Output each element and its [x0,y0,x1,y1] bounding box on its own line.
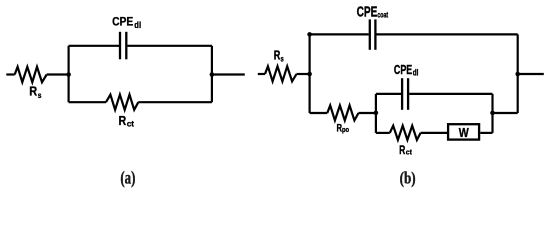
svg-text:ct: ct [127,118,135,128]
svg-text:coat: coat [377,12,388,20]
wire: inner right vertical (b) [491,94,493,133]
wire: left vertical (a) [67,46,69,102]
svg-text:R: R [274,49,281,63]
wire: output lead (b) [518,73,544,75]
node: left junction (a) [66,72,71,77]
svg-text:ct: ct [406,148,413,156]
label CPEdl (b) [394,63,419,77]
resistor Rct (a) zigzag [106,95,138,110]
wire: inner top branch left of CPEdl [376,93,401,95]
node: inner right junction (b) [490,111,495,116]
svg-text:CPE: CPE [112,16,134,29]
wire: bottom branch left (a) [69,101,106,103]
wire: right vertical (a) [211,46,213,102]
svg-text:dl: dl [134,19,141,30]
wire: W box to inner right vertical [480,132,492,134]
resistor Rs (a) zigzag [15,67,47,82]
resistor Rct (b) zigzag [390,126,421,140]
node: inner left junction after Rpo [374,111,379,116]
wire: inner left vertical (b) [375,94,377,133]
svg-text:s: s [38,90,42,100]
node: right junction (a) [210,72,215,77]
wire: right vertical (b) [517,34,519,113]
capacitor CPEcoat plates [370,19,376,49]
capacitor CPEdl (b) plates [402,78,408,110]
svg-text:s: s [281,56,284,64]
label CPEcoat [357,4,389,20]
wire: input lead (a) [6,73,14,75]
label Rs (a) [29,83,41,100]
svg-text:R: R [399,143,406,157]
wire: inner node to right vertical (b) [493,112,518,114]
node: top-left junction (b) [307,32,312,37]
label Rct (a) [119,113,135,129]
wire: left vertical (b) [309,34,311,113]
svg-text:dl: dl [413,67,419,77]
wire: top branch left (a) [69,45,119,47]
wire: Rct to W box [421,132,447,134]
svg-text:R: R [29,83,37,98]
wire: inner bottom branch left (b) [376,132,390,134]
wire: output lead (a) [212,73,245,75]
svg-text:CPE: CPE [357,4,378,20]
label Rs (b) [274,49,284,64]
wire: bottom branch right (a) [138,101,212,103]
wire: input lead (b) [258,73,265,75]
svg-text:po: po [342,126,349,134]
svg-text:W: W [459,125,470,140]
svg-text:R: R [119,113,127,128]
wire: lower branch left (b) [310,112,328,114]
wire: inner top branch right of CPEdl [409,93,492,95]
wire: Rs to node A [47,73,69,75]
wire: Rpo to inner node [359,112,376,114]
svg-text:CPE: CPE [394,63,413,77]
svg-text:(b): (b) [400,169,416,188]
wire: top branch right (a) [127,45,211,47]
wire: top branch left of CPEcoat [310,33,369,35]
resistor Rs (b) zigzag [265,66,297,81]
label Rpo [337,122,350,134]
resistor Rpo zigzag [327,105,358,120]
node: output junction (b) [515,72,520,77]
capacitor CPEdl (a) plates [120,32,126,60]
svg-text:(a): (a) [120,169,135,188]
Warburg element W box [448,124,479,139]
label CPEdl (a) [112,16,141,30]
wire: Rs to node (b) [297,73,310,75]
wire: top branch right of CPEcoat [377,33,518,35]
label Rct (b) [399,143,412,157]
node: input junction (b) [307,72,312,77]
